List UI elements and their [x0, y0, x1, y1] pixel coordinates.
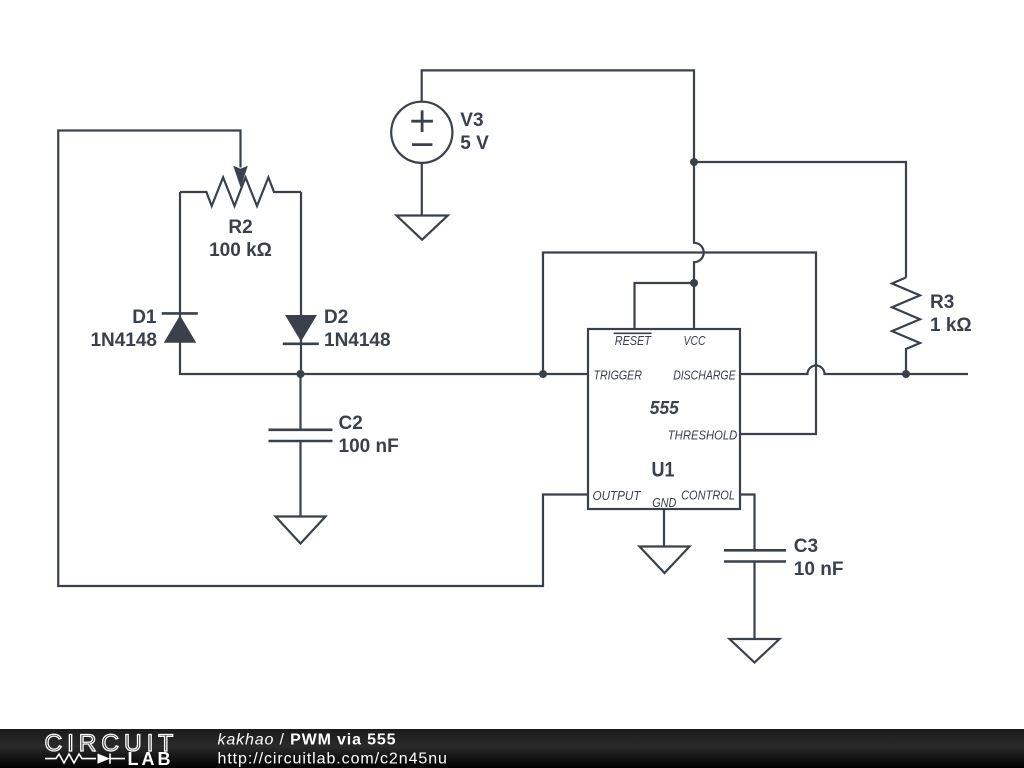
svg-text:TRIGGER: TRIGGER — [594, 368, 642, 383]
svg-text:OUTPUT: OUTPUT — [593, 488, 642, 503]
svg-text:R2: R2 — [228, 217, 252, 238]
svg-text:V3: V3 — [460, 110, 483, 131]
svg-text:VCC: VCC — [684, 333, 706, 348]
wire: VCC node to R3 top — [694, 162, 906, 278]
capacitor C3 — [724, 550, 786, 561]
svg-text:THRESHOLD: THRESHOLD — [668, 428, 738, 443]
svg-text:100 kΩ: 100 kΩ — [209, 240, 272, 261]
wire: GND pin of 555 — [663, 509, 665, 547]
capacitor C2 — [269, 430, 333, 441]
potentiometer wiper arrow — [233, 166, 248, 188]
svg-text:100 nF: 100 nF — [339, 436, 399, 457]
junction: VCC node — [690, 158, 698, 166]
wire: C3 bottom lead — [753, 562, 755, 640]
wire: threshold to trigger link — [543, 253, 816, 435]
svg-text:LAB: LAB — [128, 749, 174, 768]
svg-text:U1: U1 — [652, 459, 675, 482]
wire: C2 leads — [299, 374, 301, 517]
svg-text:1N4148: 1N4148 — [324, 330, 391, 351]
junction: VCC/RESET node — [690, 279, 698, 287]
svg-text:555: 555 — [650, 397, 680, 418]
junction: trigger/threshold node — [539, 370, 547, 378]
wire: control pin to C3 — [740, 495, 755, 551]
svg-text:C2: C2 — [339, 413, 363, 434]
overline of RESET — [614, 332, 652, 334]
wire: D2 branch from R2 right lead down to trigger node — [300, 192, 302, 374]
svg-text:10 nF: 10 nF — [794, 559, 844, 580]
diode D1 (pointing up) — [164, 315, 196, 343]
wire: discharge stub right of R3 — [906, 373, 968, 375]
wire: V3 plus to VCC vertical (with hop over threshold wire) — [422, 70, 704, 329]
svg-text:D1: D1 — [132, 307, 157, 328]
wire: reset pin from VCC node — [635, 283, 695, 329]
svg-text:RESET: RESET — [615, 333, 652, 348]
555 box U1 — [588, 329, 740, 509]
svg-text:1 kΩ: 1 kΩ — [930, 315, 972, 336]
svg-text:C3: C3 — [794, 536, 818, 557]
svg-text:GND: GND — [652, 495, 676, 510]
ground C3 — [730, 639, 780, 663]
svg-text:5 V: 5 V — [460, 133, 489, 154]
svg-text:DISCHARGE: DISCHARGE — [673, 368, 736, 383]
wire: output feedback loop — [58, 131, 588, 587]
resistor R3 — [892, 278, 920, 375]
ground C2 — [276, 517, 326, 544]
ground U1 — [640, 547, 690, 574]
junction: R3 bottom discharge node — [902, 370, 910, 378]
svg-text:D2: D2 — [324, 307, 348, 328]
wire: discharge pin to R3 bottom (hop over threshold vertical) — [740, 366, 906, 375]
ground V3 — [397, 216, 448, 240]
svg-text:kakhao / PWM via 555: kakhao / PWM via 555 — [218, 732, 397, 749]
svg-text:R3: R3 — [930, 292, 954, 313]
svg-text:CONTROL: CONTROL — [681, 488, 735, 503]
diode D2 (pointing down) — [285, 315, 317, 342]
junction: D2/C2 trigger node — [297, 370, 305, 378]
voltage source V3 — [391, 102, 452, 163]
CircuitLab logo resistor-diode glyph — [45, 754, 125, 764]
wire: trigger line from D1 anode — [180, 192, 588, 374]
svg-text:http://circuitlab.com/c2n45nu: http://circuitlab.com/c2n45nu — [218, 751, 448, 768]
svg-text:1N4148: 1N4148 — [90, 330, 157, 351]
resistor R2 (potentiometer body) — [180, 177, 301, 206]
